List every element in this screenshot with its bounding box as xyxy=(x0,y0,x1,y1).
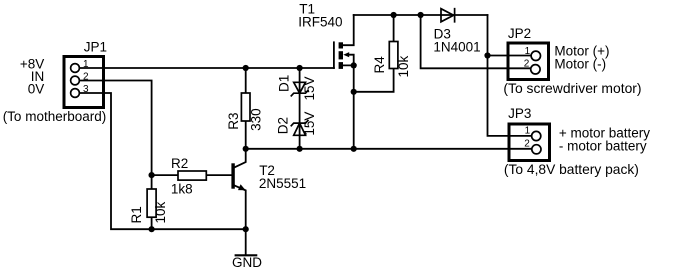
svg-text:2: 2 xyxy=(524,58,530,69)
svg-text:GND: GND xyxy=(232,255,262,270)
svg-text:Motor (-): Motor (-) xyxy=(554,56,606,71)
svg-text:JP1: JP1 xyxy=(84,40,107,55)
svg-text:(To 4,8V battery pack): (To 4,8V battery pack) xyxy=(504,162,639,177)
svg-text:R4: R4 xyxy=(372,56,387,74)
svg-text:15V: 15V xyxy=(302,112,317,136)
svg-text:2: 2 xyxy=(524,138,530,149)
svg-text:2N5551: 2N5551 xyxy=(259,176,306,191)
svg-text:R3: R3 xyxy=(226,113,241,130)
svg-text:(To motherboard): (To motherboard) xyxy=(3,109,107,124)
svg-text:2: 2 xyxy=(83,71,89,82)
svg-text:1k8: 1k8 xyxy=(171,181,193,196)
svg-text:D2: D2 xyxy=(276,117,291,134)
svg-text:R1: R1 xyxy=(129,206,144,223)
svg-text:JP3: JP3 xyxy=(508,106,531,121)
svg-text:JP2: JP2 xyxy=(508,26,531,41)
svg-text:R2: R2 xyxy=(171,156,188,171)
svg-text:330: 330 xyxy=(248,108,263,131)
svg-text:0V: 0V xyxy=(28,82,45,97)
svg-text:10k: 10k xyxy=(396,55,411,77)
svg-text:(To screwdriver motor): (To screwdriver motor) xyxy=(503,80,641,96)
svg-text:1: 1 xyxy=(525,125,531,136)
svg-text:3: 3 xyxy=(83,84,89,95)
svg-text:15V: 15V xyxy=(302,76,317,100)
svg-text:10k: 10k xyxy=(153,201,168,223)
svg-text:IRF540: IRF540 xyxy=(298,14,342,29)
svg-text:- motor battery: - motor battery xyxy=(559,139,647,154)
svg-text:1N4001: 1N4001 xyxy=(433,39,480,54)
svg-text:1: 1 xyxy=(83,59,89,70)
svg-text:1: 1 xyxy=(525,46,531,57)
svg-text:D1: D1 xyxy=(276,75,291,92)
